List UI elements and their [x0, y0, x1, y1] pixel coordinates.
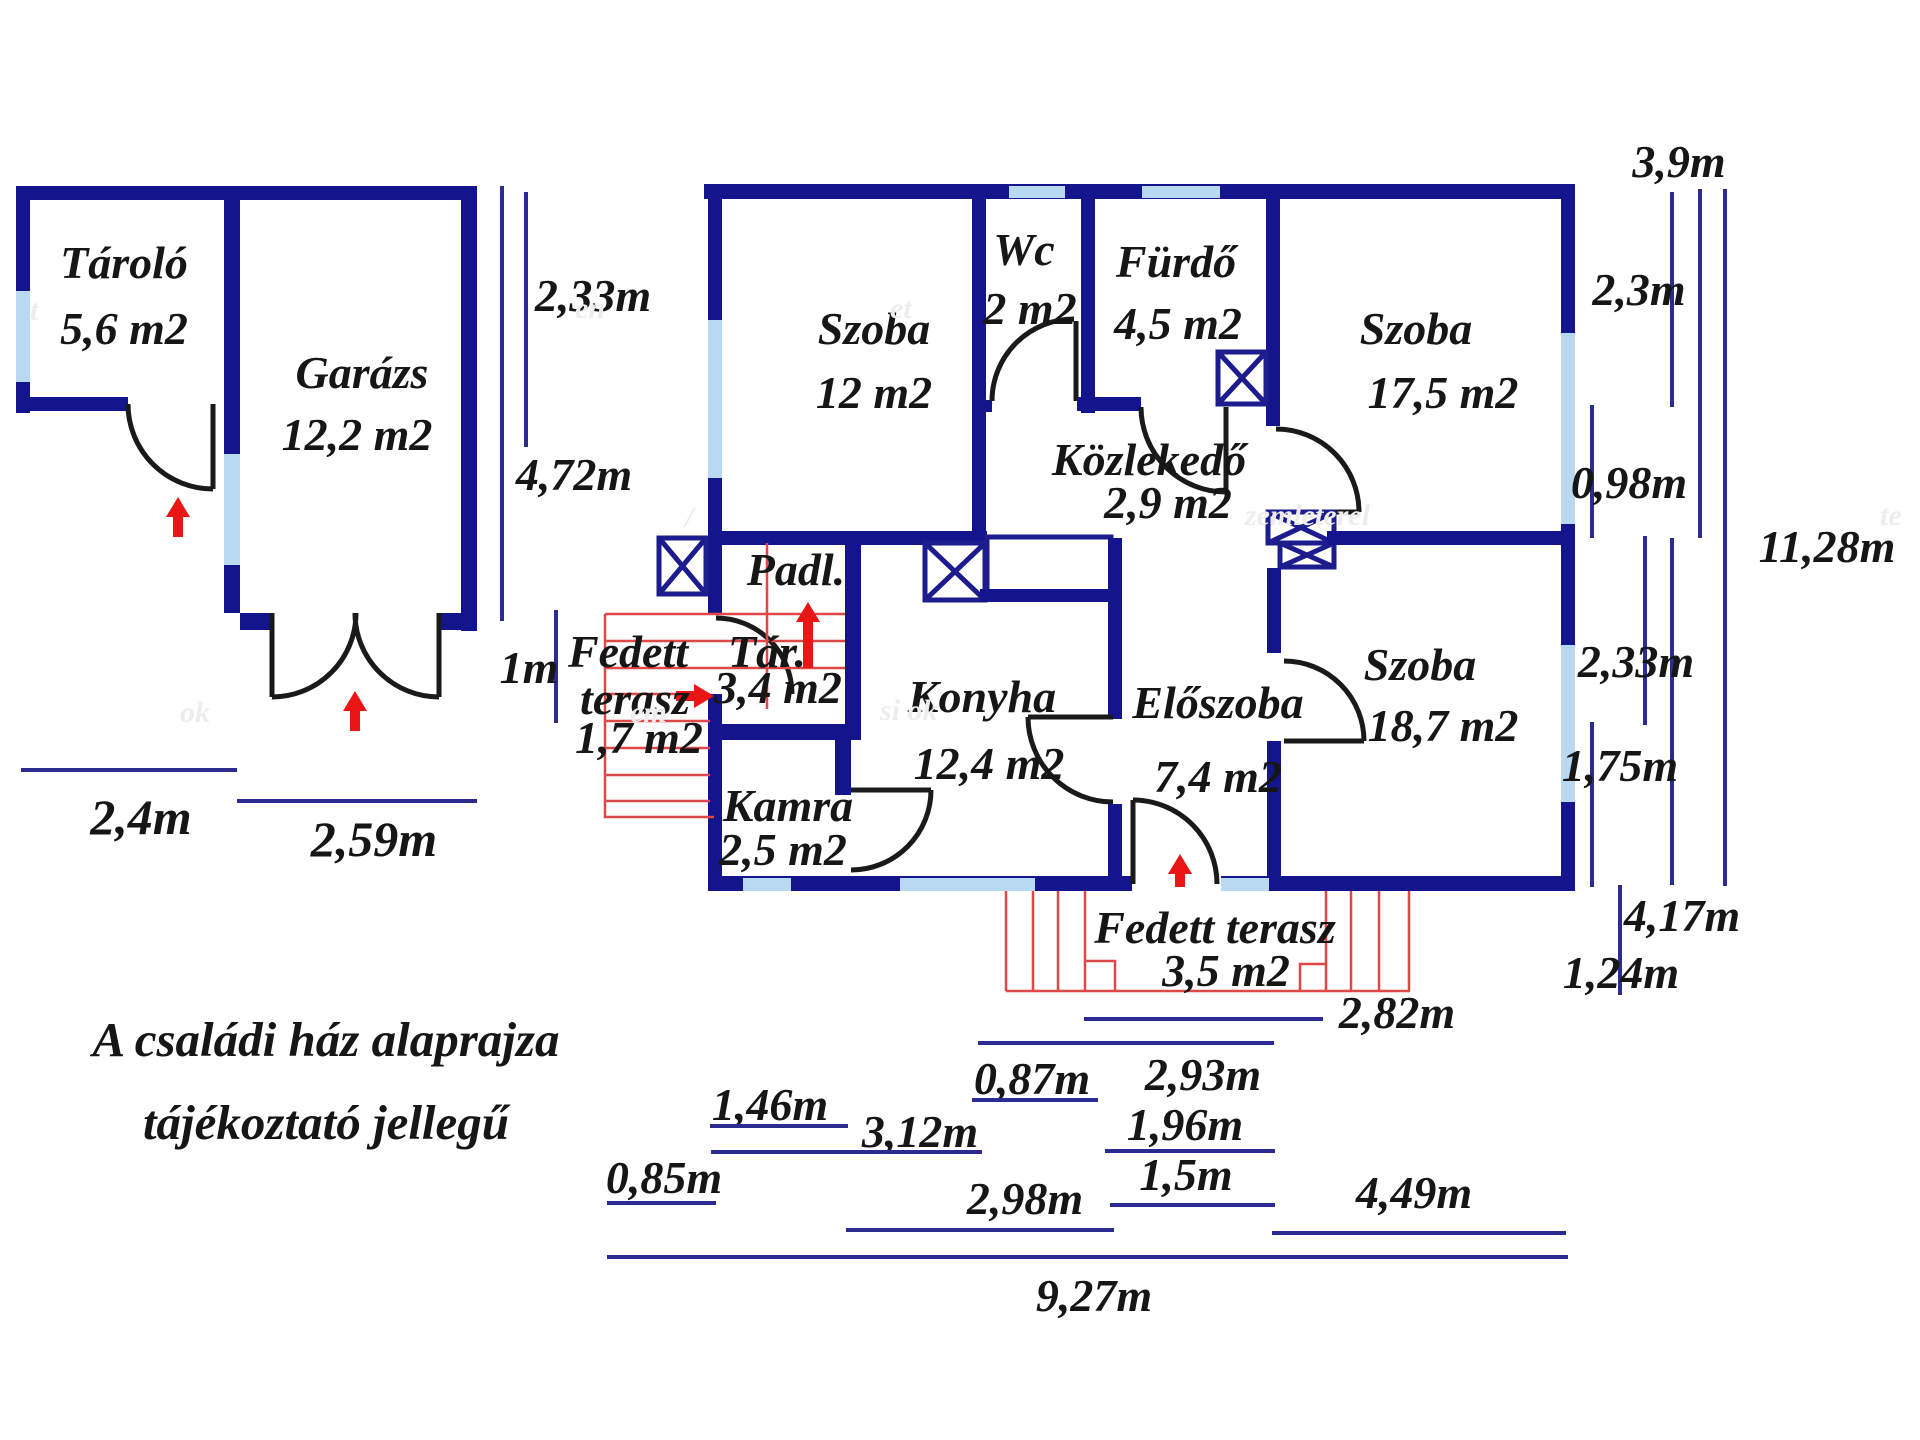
- svg-text:9,27m: 9,27m: [1036, 1270, 1152, 1321]
- window: Szoba17,5 right wall: [1561, 333, 1575, 524]
- svg-text:12,4 m2: 12,4 m2: [914, 738, 1065, 789]
- stairs: bottom terrace left step: [1085, 961, 1115, 991]
- svg-text:2,4m: 2,4m: [89, 789, 191, 845]
- arrow: Tarolo entrance: [166, 497, 190, 537]
- dimension line: 3,12m: [711, 1150, 982, 1154]
- svg-text:4,72m: 4,72m: [515, 449, 632, 500]
- dimension line: 2,93m: [978, 1041, 1274, 1045]
- wall: Tarolo bottom: [16, 397, 128, 411]
- svg-text:2,93m: 2,93m: [1144, 1049, 1261, 1100]
- wall: Wc/Furdo divider: [1081, 184, 1095, 413]
- svg-text:4,5 m2: 4,5 m2: [1113, 298, 1242, 349]
- svg-text:et: et: [890, 292, 913, 325]
- svg-text:1,75m: 1,75m: [1562, 740, 1678, 791]
- svg-text:0,85m: 0,85m: [606, 1152, 722, 1203]
- door opening: front entrance gap: [1132, 876, 1221, 891]
- door: Wc door: [992, 319, 1076, 401]
- svg-text:1,46m: 1,46m: [712, 1079, 828, 1130]
- svg-text:Wc: Wc: [993, 224, 1054, 275]
- wall: Szoba18,7 left upper: [1267, 568, 1281, 653]
- svg-text:11,28m: 11,28m: [1759, 521, 1896, 572]
- wall: Szoba18,7 left lower: [1267, 741, 1281, 876]
- svg-text:Szoba: Szoba: [1364, 639, 1476, 690]
- arrow: garage entrance: [343, 691, 367, 731]
- arrow: entrance up arrow: [1168, 854, 1192, 887]
- dimension line: 0,85m: [607, 1201, 716, 1205]
- wall: house top: [704, 184, 1575, 199]
- dimension line: 2,82m: [1084, 1017, 1323, 1021]
- svg-text:em: em: [630, 696, 667, 729]
- wall: Szoba12 right: [972, 184, 986, 544]
- door: Szoba 17,5 door: [1276, 429, 1359, 512]
- dimension line: 11,28m: [1723, 189, 1727, 886]
- svg-text:12,2 m2: 12,2 m2: [282, 409, 433, 460]
- svg-text:12 m2: 12 m2: [816, 367, 932, 418]
- svg-text:ok: ok: [180, 696, 210, 729]
- svg-text:5,6 m2: 5,6 m2: [60, 303, 188, 354]
- svg-text:Fürdő: Fürdő: [1115, 236, 1239, 287]
- door: front entrance door: [1133, 800, 1217, 884]
- wall: garage building top: [16, 186, 477, 200]
- xbox: double flue above Szoba 18,7: [1268, 512, 1334, 567]
- wall: Konyha top: [980, 589, 1121, 602]
- svg-text:0,87m: 0,87m: [974, 1053, 1090, 1104]
- svg-text:3,4 m2: 3,4 m2: [713, 662, 842, 713]
- wall: Garazs bottom left piece: [240, 613, 272, 630]
- door: Tarolo door leaf and arc: [128, 404, 213, 489]
- dimension line: 1,96m: [1105, 1149, 1275, 1153]
- wall: Furdo right: [1266, 184, 1280, 426]
- dimension line: 2,59m: [237, 799, 477, 803]
- window: Szoba12 left wall: [708, 320, 722, 478]
- window: Szoba18,7 right wall: [1561, 645, 1575, 802]
- svg-text:Tároló: Tároló: [60, 237, 188, 288]
- svg-text:1m: 1m: [500, 642, 559, 693]
- svg-text:3,12m: 3,12m: [861, 1106, 978, 1157]
- wall: Konyha right lower: [1108, 804, 1122, 876]
- svg-text:1,96m: 1,96m: [1127, 1099, 1243, 1150]
- window: top wall over Furdo: [1142, 186, 1220, 198]
- dimension line: 2,3m: [1670, 192, 1674, 407]
- door: Furdo door: [1141, 407, 1226, 492]
- window: Garazs left wall: [224, 454, 240, 565]
- svg-text:17,5 m2: 17,5 m2: [1368, 367, 1519, 418]
- dimension line: 4,17m: [1670, 538, 1674, 885]
- svg-text:Garázs: Garázs: [296, 347, 429, 398]
- svg-text:2,3m: 2,3m: [1591, 264, 1685, 315]
- wall: garage building left: [16, 186, 30, 413]
- wall: Kamra top: [708, 724, 861, 740]
- wall: Tarolo/Garazs divider: [224, 186, 240, 613]
- dimension line: 2,33m right: [1643, 536, 1647, 725]
- dimension line: 2,33m: [524, 192, 528, 447]
- dimension line: 1m: [554, 610, 558, 723]
- svg-text:2,82m: 2,82m: [1338, 987, 1455, 1038]
- svg-text:Fedett: Fedett: [567, 626, 689, 677]
- door: garage double door: [272, 613, 439, 697]
- stairs: treads left terrace: [605, 694, 710, 801]
- dimension line: 2,4m: [21, 768, 237, 772]
- xbox: window box left of Padl: [659, 538, 706, 594]
- dimension line: garage height 4,72m: [500, 186, 504, 621]
- svg-text:18,7 m2: 18,7 m2: [1368, 700, 1519, 751]
- dimension line: 9,27m total: [607, 1255, 1568, 1259]
- dimension line: 3,9m: [1698, 189, 1702, 538]
- dimension line: 1,5m: [1110, 1203, 1275, 1207]
- svg-text:zemleterel: zemleterel: [1244, 499, 1371, 532]
- svg-text:2 m2: 2 m2: [982, 283, 1076, 334]
- svg-text:1,24m: 1,24m: [1563, 947, 1679, 998]
- window: top wall over Wc: [1009, 186, 1065, 198]
- svg-text:Padl.: Padl.: [746, 544, 845, 595]
- svg-text:Szoba: Szoba: [818, 303, 930, 354]
- svg-text:4,17m: 4,17m: [1623, 890, 1740, 941]
- stairs: bottom terrace right step: [1300, 964, 1326, 991]
- wall: Szoba17,5 bottom: [1327, 531, 1575, 545]
- svg-text:2,9 m2: 2,9 m2: [1103, 477, 1232, 528]
- svg-text:te: te: [1880, 499, 1902, 532]
- door: Konyha door: [1028, 717, 1113, 802]
- dimension line: 0,87m: [972, 1098, 1098, 1102]
- stairs: Padl vertical rail: [766, 543, 769, 709]
- door opening: Tar. door gap in left wall: [708, 614, 722, 694]
- svg-text:1,5m: 1,5m: [1139, 1149, 1232, 1200]
- stairs: bottom terrace base line: [1006, 990, 1410, 993]
- wall: Furdo bottom: [1077, 397, 1141, 411]
- xbox: flue beside Furdo wall: [1218, 352, 1266, 404]
- door: Tar. door arc: [716, 618, 792, 694]
- svg-text:2,33m: 2,33m: [1577, 636, 1694, 687]
- svg-text:4,49m: 4,49m: [1355, 1167, 1472, 1218]
- dimension line: 0,98m: [1590, 405, 1594, 538]
- stairs: treads through door opening: [605, 614, 845, 668]
- door: Kamra door: [851, 790, 931, 870]
- dimension line: 4,49m: [1272, 1231, 1566, 1235]
- wall: Garazs bottom right piece: [439, 613, 477, 630]
- svg-text:en: en: [575, 292, 605, 325]
- wall: Wc door stub: [972, 400, 992, 412]
- svg-text:7,4 m2: 7,4 m2: [1154, 751, 1282, 802]
- svg-text:Szoba: Szoba: [1360, 303, 1472, 354]
- wall: house left: [708, 184, 722, 890]
- xbox: flue left of Konyha: [925, 543, 985, 600]
- window: Tarolo left wall: [16, 291, 30, 382]
- dimension line: 1,75m: [1590, 722, 1594, 887]
- wall: Szoba12 bottom: [708, 531, 987, 545]
- dimension line: 2,98m: [846, 1228, 1114, 1232]
- stairs: left terrace frame: [605, 614, 714, 817]
- wall: Garazs right: [461, 186, 477, 631]
- dimension line: 1,24m: [1618, 885, 1622, 995]
- door: Szoba 18,7 door: [1284, 661, 1364, 741]
- svg-text:2,5 m2: 2,5 m2: [718, 824, 847, 875]
- cupboard: thin box above Konyha: [987, 537, 1111, 592]
- arrow: terrace right arrow: [676, 684, 714, 708]
- window: bottom wall under Konyha: [900, 878, 1035, 891]
- svg-text:tájékoztató jellegű: tájékoztató jellegű: [143, 1095, 511, 1150]
- wall: Kamra right: [835, 740, 851, 795]
- wall: Padl right: [845, 531, 861, 727]
- stairs: bottom terrace right verticals: [1326, 891, 1409, 991]
- wall: house right: [1561, 184, 1575, 890]
- svg-text:3,9m: 3,9m: [1631, 136, 1725, 187]
- svg-text:si ok: si ok: [879, 694, 938, 727]
- stairs: bottom terrace left verticals: [1006, 891, 1085, 991]
- svg-text:0,98m: 0,98m: [1571, 457, 1687, 508]
- svg-text:3,5 m2: 3,5 m2: [1161, 945, 1290, 996]
- wall: house bottom: [708, 876, 1575, 891]
- window: bottom wall right of entrance: [1221, 878, 1269, 891]
- svg-text:2,59m: 2,59m: [310, 811, 437, 867]
- window: bottom wall under Kamra: [743, 878, 791, 891]
- wall: Konyha right upper: [1108, 538, 1122, 719]
- dimension line: 1,46m: [710, 1124, 848, 1128]
- svg-text:A családi ház alaprajza: A családi ház alaprajza: [90, 1012, 560, 1067]
- svg-text:2,98m: 2,98m: [966, 1173, 1083, 1224]
- svg-text:Előszoba: Előszoba: [1131, 677, 1303, 728]
- arrow: Padl up arrow: [796, 602, 820, 668]
